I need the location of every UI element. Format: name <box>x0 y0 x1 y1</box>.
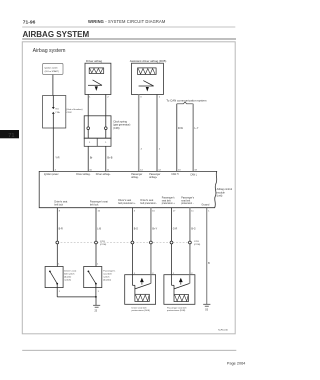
header rule <box>22 26 235 28</box>
svg-text:Driver's seat: Driver's seat <box>54 200 67 203</box>
svg-text:pretensioner (D06): pretensioner (D06) <box>132 309 151 312</box>
clock spring contact left <box>87 127 90 130</box>
wire assistant airbag pin1 to module <box>156 95 158 172</box>
driver pretensioner squib resistor <box>135 294 149 301</box>
ground G2 <box>203 304 210 306</box>
svg-text:Passenger's: Passenger's <box>181 197 195 200</box>
svg-text:Ignition switch: Ignition switch <box>45 66 59 69</box>
svg-text:Driver airbag+: Driver airbag+ <box>96 173 111 176</box>
svg-text:seat belt: seat belt <box>162 199 171 202</box>
svg-text:G5: G5 <box>205 310 209 312</box>
wire CAN L (thick) <box>192 104 194 172</box>
svg-text:airbag+: airbag+ <box>149 176 157 179</box>
svg-text:Driver's seat: Driver's seat <box>118 199 131 202</box>
wire module to passenger pretensioner - (thick) <box>189 208 191 275</box>
driver airbag box <box>85 63 111 94</box>
svg-text:Driver airbag-: Driver airbag- <box>76 173 90 176</box>
assistant airbag igniter arrow <box>139 81 154 92</box>
svg-text:Passenger seat belt: Passenger seat belt <box>167 306 187 309</box>
fuse F1 7.5A <box>52 96 60 114</box>
harness dashed line <box>57 242 190 244</box>
wire labels row <box>59 227 211 265</box>
title rule <box>22 38 236 40</box>
ground bus <box>57 296 96 298</box>
svg-text:L-Y: L-Y <box>195 127 199 130</box>
svg-text:(buckle): (buckle) <box>103 279 111 281</box>
svg-text:Passenger's seat: Passenger's seat <box>90 200 108 203</box>
svg-text:Br-B: Br-B <box>107 157 112 160</box>
svg-text:Br: Br <box>90 157 93 160</box>
svg-text:C705: C705 <box>100 241 106 243</box>
svg-text:Airbag system: Airbag system <box>33 48 66 54</box>
svg-text:7.5A: 7.5A <box>55 111 60 114</box>
svg-text:17: 17 <box>173 210 176 212</box>
driver airbag igniter arrow <box>88 80 102 91</box>
wire fuse to control module pin 4 <box>52 114 54 171</box>
clock spring box <box>84 116 111 138</box>
svg-text:pretensioner (D08): pretensioner (D08) <box>167 309 186 312</box>
svg-text:(buckle: (buckle <box>64 277 72 279</box>
svg-text:Driver airbag: Driver airbag <box>86 59 102 63</box>
side tab 71 <box>0 130 19 138</box>
svg-text:(C706): (C706) <box>194 244 201 246</box>
svg-text:Passenger: Passenger <box>149 173 160 176</box>
svg-text:1: 1 <box>208 210 210 212</box>
passenger seat belt switch SW3 <box>84 267 102 288</box>
svg-text:71: 71 <box>8 133 14 139</box>
svg-text:25: 25 <box>95 310 98 312</box>
svg-text:(Unit of fusebox): (Unit of fusebox) <box>66 108 82 111</box>
svg-text:Driver seat belt: Driver seat belt <box>132 306 147 309</box>
svg-text:C705: C705 <box>194 241 200 243</box>
svg-text:Br-Y: Br-Y <box>152 227 157 230</box>
svg-text:G-R: G-R <box>173 227 178 230</box>
svg-text:Page 2064: Page 2064 <box>227 361 245 365</box>
svg-text:L-B: L-B <box>97 227 101 230</box>
svg-text:(C06): (C06) <box>113 127 119 130</box>
svg-text:C202: C202 <box>66 112 72 114</box>
svg-text:switch): switch) <box>64 278 71 281</box>
svg-text:11: 11 <box>191 210 194 212</box>
driver airbag squib (resistor) <box>89 68 104 74</box>
airbag control module U1 <box>39 171 217 207</box>
module pin names top <box>44 173 198 179</box>
wire module to driver belt switch <box>56 208 58 267</box>
module pin names bottom <box>54 197 210 207</box>
passenger pretensioner box D08 <box>164 275 195 305</box>
svg-text:pretension -: pretension - <box>181 202 194 205</box>
inline connector circles <box>56 241 191 244</box>
ground G1 <box>93 297 100 307</box>
svg-text:Driver's seat: Driver's seat <box>140 199 153 202</box>
svg-text:71-96: 71-96 <box>23 20 36 26</box>
wire switch1 to ground bus <box>56 284 58 297</box>
svg-text:Passenger: Passenger <box>131 173 142 176</box>
wire CAN H <box>176 104 178 172</box>
svg-text:To CAN communication system: To CAN communication system <box>166 99 207 103</box>
svg-text:Passenger's: Passenger's <box>162 197 176 200</box>
driver seat belt switch SW2 <box>45 267 63 288</box>
svg-text:2: 2 <box>107 96 109 98</box>
svg-text:1: 1 <box>98 291 100 293</box>
svg-text:AIRBAG SYSTEM: AIRBAG SYSTEM <box>23 30 90 39</box>
ground wire from module pin 1 <box>206 208 208 305</box>
module bottom pin numbers <box>59 210 211 212</box>
svg-text:Driver's seat: Driver's seat <box>64 270 76 273</box>
passenger pretensioner igniter <box>172 275 190 295</box>
wire clock spring to module pin 10 <box>87 146 89 171</box>
svg-text:3: 3 <box>134 210 136 212</box>
svg-text:belt switch: belt switch <box>64 273 75 276</box>
svg-text:1: 1 <box>97 263 99 265</box>
wire assistant airbag pin3 to module (thick) <box>138 95 140 172</box>
svg-text:KaFD-010: KaFD-010 <box>218 330 228 332</box>
junction <box>95 296 97 298</box>
svg-text:1: 1 <box>89 96 91 98</box>
clock spring connector strip <box>84 138 111 146</box>
svg-text:IG1: IG1 <box>55 108 59 110</box>
footer rule <box>22 349 236 351</box>
fuse box <box>43 96 66 129</box>
svg-text:belt lock: belt lock <box>90 203 99 206</box>
svg-text:CAN L: CAN L <box>190 173 198 176</box>
wire driver airbag pin1 to clock spring <box>87 95 89 139</box>
wire module to passenger belt switch <box>95 208 97 267</box>
clock spring contact right <box>105 127 108 130</box>
svg-text:seat belt: seat belt <box>181 199 190 202</box>
svg-text:1: 1 <box>58 263 60 265</box>
svg-text:B-R: B-R <box>59 227 63 230</box>
svg-text:B-G: B-G <box>191 227 195 230</box>
diagram frame <box>22 42 235 334</box>
wire ignition to fuse <box>52 75 54 96</box>
svg-text:pretension +: pretension + <box>162 202 176 205</box>
wire module to driver pretensioner - (thick) <box>150 208 152 275</box>
svg-text:Ignition power: Ignition power <box>44 173 59 176</box>
svg-text:belt lock: belt lock <box>54 203 63 206</box>
svg-text:B: B <box>208 262 210 265</box>
svg-text:Assistant driver airbag (D05): Assistant driver airbag (D05) <box>130 59 167 63</box>
svg-text:(IG1 or START): (IG1 or START) <box>45 70 60 73</box>
svg-text:1: 1 <box>159 96 161 98</box>
svg-text:WIRING - SYSTEM CIRCUIT DIAGRA: WIRING - SYSTEM CIRCUIT DIAGRAM <box>88 19 166 24</box>
svg-text:4: 4 <box>141 148 143 150</box>
svg-text:belt pretension +: belt pretension + <box>118 202 136 205</box>
svg-text:Passenger's: Passenger's <box>103 270 116 273</box>
svg-text:airbag-: airbag- <box>131 176 138 179</box>
svg-text:1: 1 <box>105 142 107 144</box>
CAN bracket <box>177 102 193 104</box>
assistant airbag box <box>132 63 164 94</box>
svg-text:belt pretension -: belt pretension - <box>140 202 157 205</box>
wire driver airbag pin2 to clock spring <box>105 95 107 139</box>
svg-text:B-O: B-O <box>134 227 138 230</box>
svg-text:R-W: R-W <box>178 127 184 130</box>
svg-text:1: 1 <box>59 291 61 293</box>
svg-text:Ground: Ground <box>202 203 210 206</box>
wire module to driver pretensioner + <box>131 208 133 275</box>
driver pretensioner box D07 <box>125 275 156 305</box>
svg-text:8: 8 <box>59 210 61 212</box>
wire switch2 to ground bus <box>95 284 97 297</box>
ignition switch SW1 <box>43 63 63 74</box>
wire module to passenger pretensioner + <box>171 208 173 275</box>
svg-text:2: 2 <box>159 148 161 150</box>
assistant airbag squib (resistor) <box>138 68 157 75</box>
svg-text:16: 16 <box>152 210 155 212</box>
driver pretensioner igniter <box>132 275 151 295</box>
svg-text:seat belt: seat belt <box>103 273 112 276</box>
svg-text:switch: switch <box>103 276 110 279</box>
svg-text:3: 3 <box>140 96 142 98</box>
passenger pretensioner squib resistor <box>174 294 188 301</box>
svg-text:1: 1 <box>89 142 91 144</box>
svg-text:CAN H: CAN H <box>171 173 179 176</box>
svg-text:Y-R: Y-R <box>55 156 59 160</box>
svg-text:15: 15 <box>98 210 101 212</box>
wire clock spring to module pin 11 <box>105 146 107 171</box>
svg-text:(unit): (unit) <box>217 195 223 198</box>
svg-text:(C706): (C706) <box>100 244 107 246</box>
